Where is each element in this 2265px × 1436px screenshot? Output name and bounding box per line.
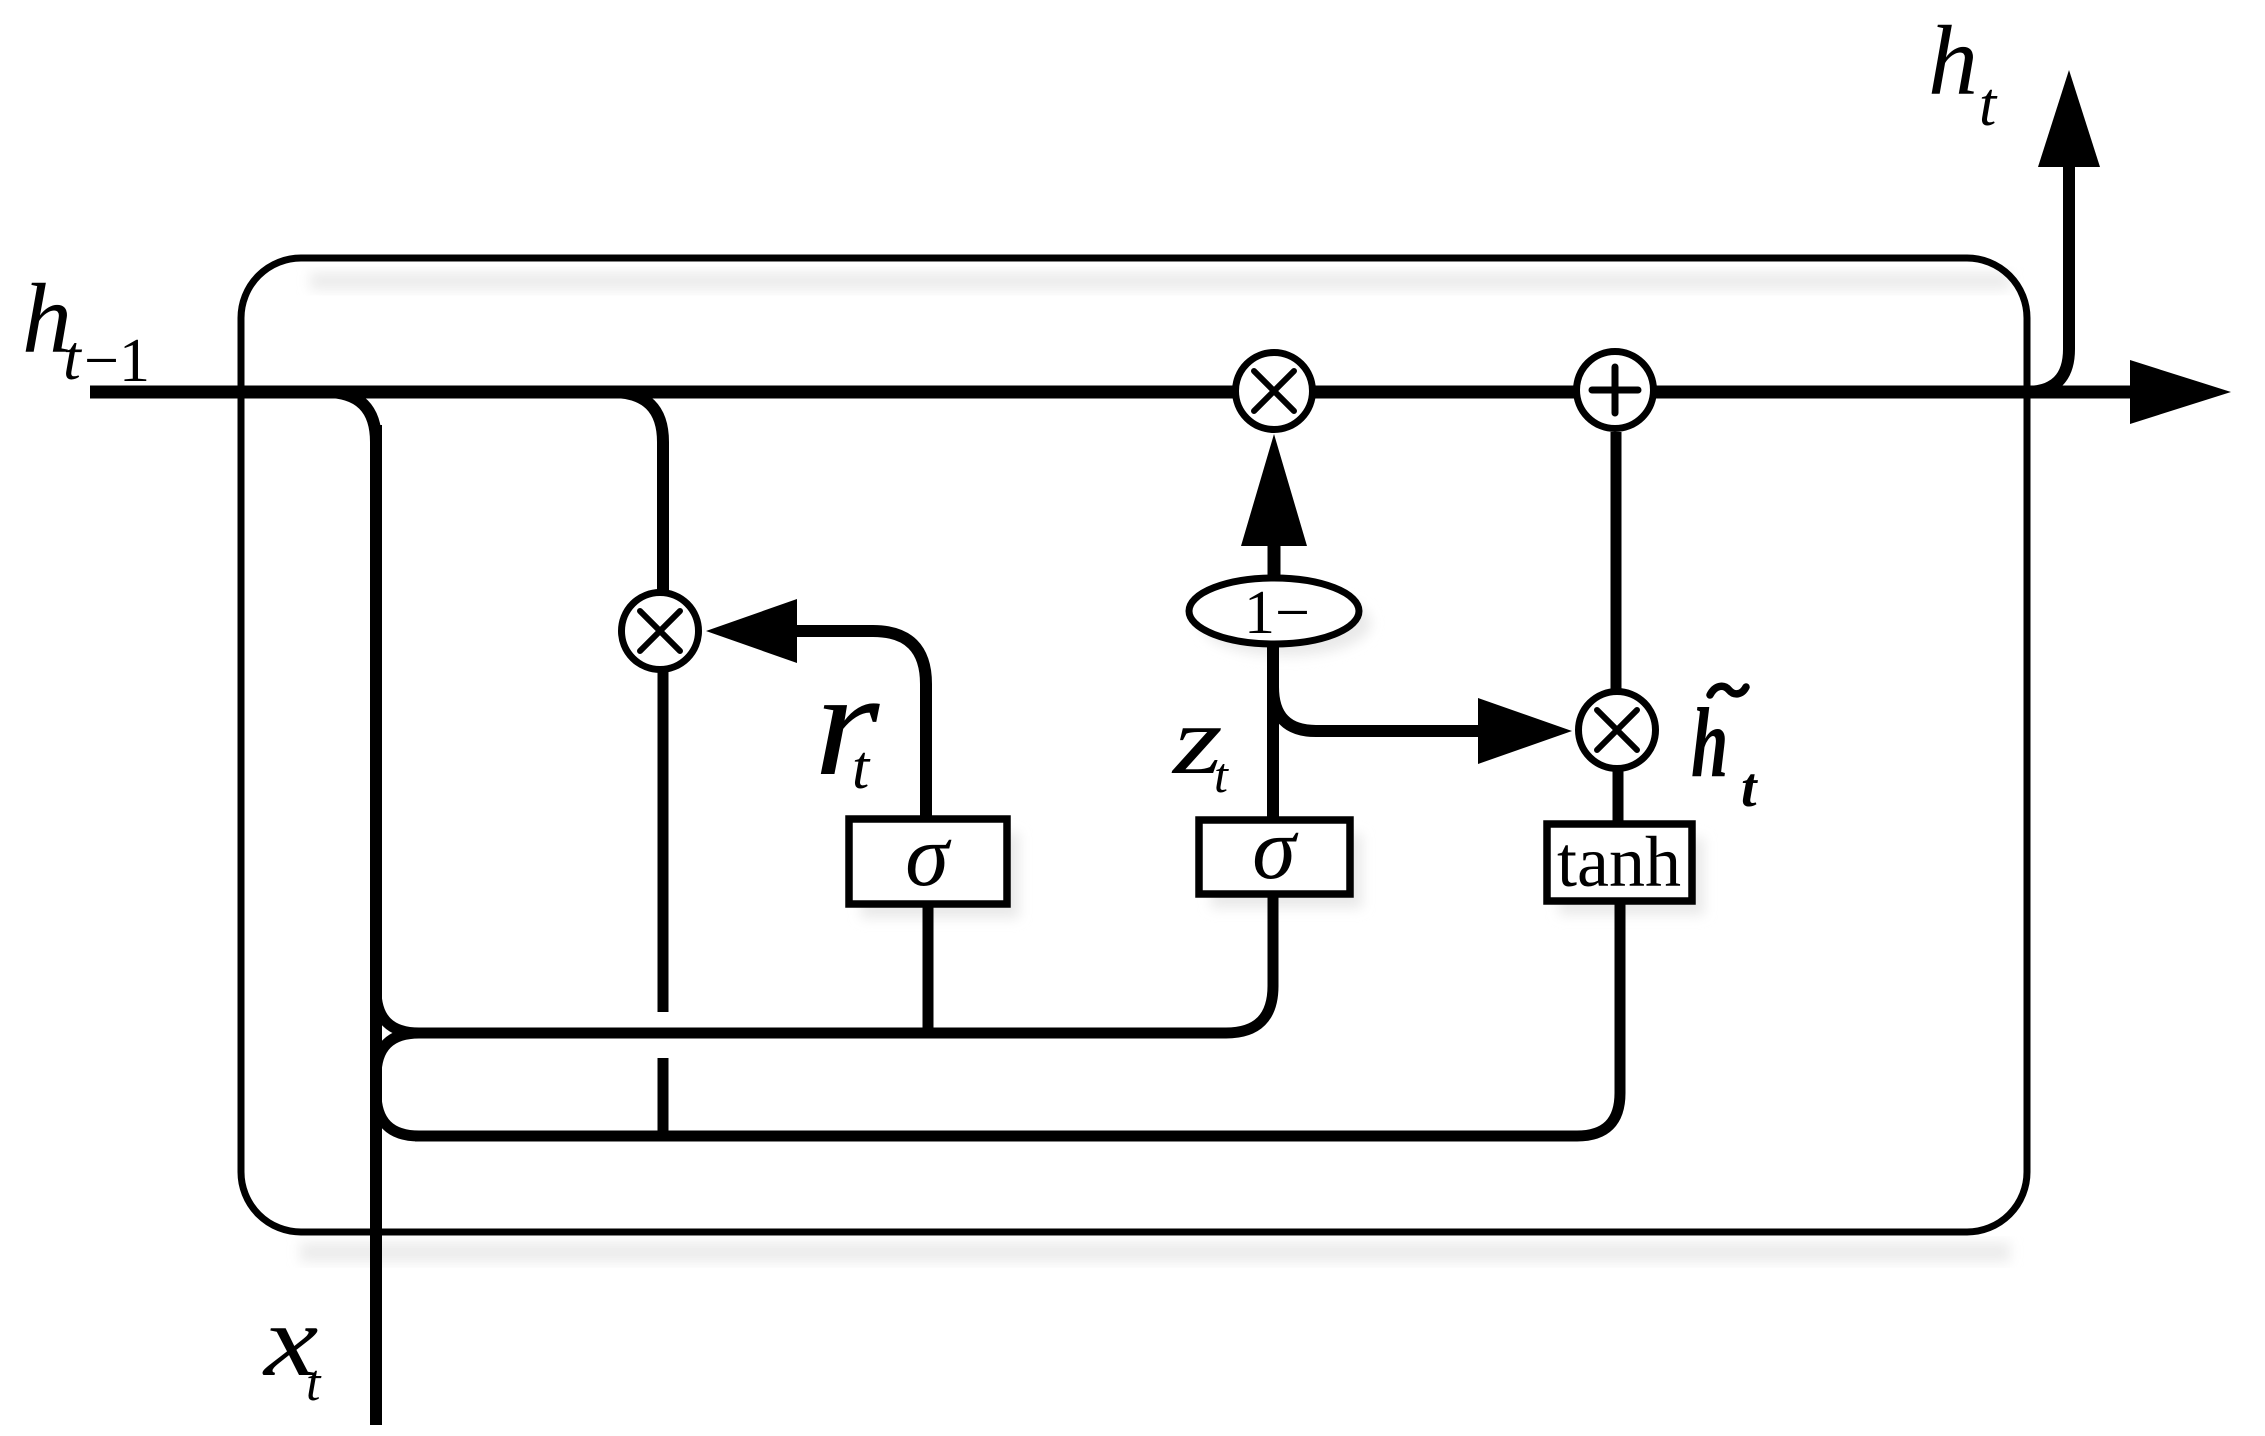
shadow of sigma box r [861, 833, 1019, 918]
node 1-minus ellipse [1189, 578, 1359, 647]
junction fillet to gate feed line [376, 990, 419, 1033]
label h_t top [1928, 5, 1998, 139]
node multiplier on main line (forget side) [1236, 353, 1313, 430]
wire x_t / h_t-1 merged vertical [326, 392, 376, 442]
wire r_t from sigma to reset multiplier [797, 631, 926, 819]
wire h_t output branch [2026, 167, 2069, 392]
wire z_t branch to candidate multiplier [1273, 687, 1478, 731]
arrowhead h_t [2038, 70, 2100, 167]
arrowhead r_t [706, 599, 797, 663]
label r_t [814, 641, 880, 807]
wire gate feed line [415, 897, 1273, 1033]
node adder on main line [1577, 352, 1654, 429]
wire reset branch from main line [612, 392, 663, 591]
shadow of 1-minus ellipse [1201, 590, 1371, 656]
svg-text:tanh: tanh [1557, 822, 1681, 902]
svg-text:t: t [306, 1355, 322, 1412]
wire tanh feed line [415, 904, 1620, 1136]
svg-text:σ: σ [905, 808, 952, 905]
wire plus to candidate multiplier [1611, 432, 1622, 690]
svg-text:t: t [1214, 747, 1229, 803]
svg-text:h: h [1691, 688, 1728, 798]
wire 1- ellipse up [1268, 546, 1281, 577]
svg-text:r: r [814, 641, 880, 807]
node candidate multiplier [1579, 692, 1656, 769]
shadow of tanh box [1559, 838, 1704, 915]
sigma box z gate [1199, 801, 1350, 898]
arrowhead z_t branch [1478, 698, 1572, 764]
wire h_t-1 main line [90, 386, 2130, 399]
svg-text:σ: σ [1252, 801, 1299, 898]
wire reset product to tanh feed (after hop) [658, 1058, 669, 1136]
wire candidate multiplier to tanh [1613, 771, 1624, 821]
label x_t [262, 1285, 322, 1412]
arrowhead main line output [2130, 360, 2231, 424]
sigma box r gate [849, 808, 1007, 905]
shadow of sigma box z [1211, 834, 1362, 908]
tanh box [1547, 822, 1692, 902]
wire z_t sigma to 1- ellipse [1267, 647, 1279, 817]
svg-text:t: t [1979, 71, 1998, 139]
svg-text:t: t [852, 734, 871, 802]
junction fillet to tanh feed line [376, 1093, 419, 1136]
GRU cell boundary [241, 258, 2027, 1232]
wire reset product down [658, 672, 669, 1012]
shadow of cell bottom border [300, 1242, 2010, 1262]
label h_t-1 [22, 263, 150, 395]
svg-text:1−: 1− [1244, 579, 1310, 647]
label z_t [1171, 686, 1229, 803]
svg-text:t: t [1741, 757, 1758, 819]
shadow of cell top border [310, 272, 2010, 290]
svg-text:−1: −1 [84, 327, 150, 395]
node reset multiplier [622, 593, 699, 670]
label h-tilde_t [1691, 686, 1758, 819]
svg-text:t: t [63, 322, 83, 393]
svg-text:h: h [1928, 5, 1978, 116]
arrowhead into main multiplier [1241, 434, 1307, 546]
wire sigma-r drop to gate feed line [923, 907, 934, 1033]
junction fillet below gate feed line [376, 1033, 419, 1076]
